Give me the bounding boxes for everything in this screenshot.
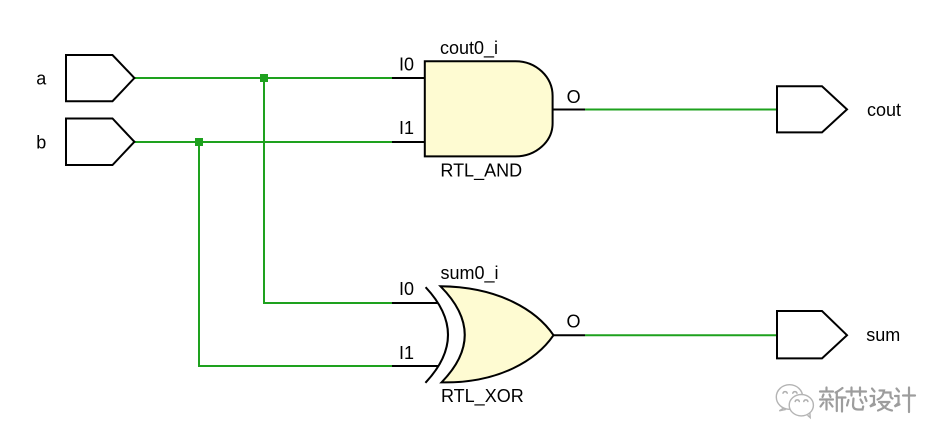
svg-text:O: O xyxy=(567,87,581,107)
svg-text:I0: I0 xyxy=(399,279,414,299)
svg-text:RTL_XOR: RTL_XOR xyxy=(441,386,524,407)
svg-text:b: b xyxy=(36,132,46,152)
svg-text:I1: I1 xyxy=(399,118,414,138)
svg-text:I1: I1 xyxy=(399,343,414,363)
svg-text:sum0_i: sum0_i xyxy=(441,263,499,284)
svg-text:sum: sum xyxy=(866,325,900,345)
svg-text:RTL_AND: RTL_AND xyxy=(440,161,522,182)
svg-text:a: a xyxy=(36,68,47,88)
svg-text:I0: I0 xyxy=(399,54,414,74)
svg-text:cout0_i: cout0_i xyxy=(440,38,498,59)
svg-text:O: O xyxy=(567,311,581,331)
svg-text:cout: cout xyxy=(867,100,901,120)
